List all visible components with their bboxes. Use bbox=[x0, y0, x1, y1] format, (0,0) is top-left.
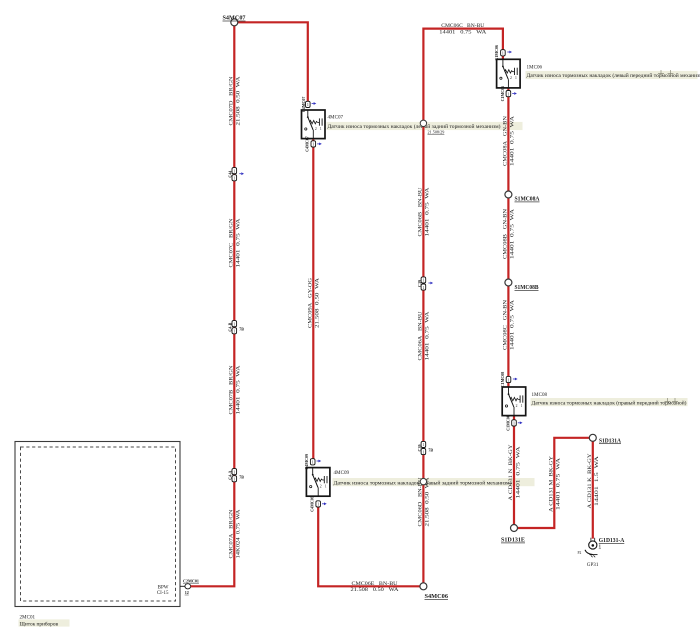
svg-text:2MC01: 2MC01 bbox=[20, 614, 36, 620]
inline connector C4-A on left wire bbox=[232, 469, 237, 475]
svg-text:C44: C44 bbox=[228, 171, 233, 178]
svg-text:C4MC07: C4MC07 bbox=[301, 97, 306, 113]
svg-text:1: 1 bbox=[502, 52, 504, 56]
svg-text:CMC06A BN-BU: CMC06A BN-BU bbox=[418, 311, 424, 360]
svg-text:CMC07B BR/GN: CMC07B BR/GN bbox=[229, 365, 235, 414]
sensor body 1MC06 bbox=[497, 59, 520, 88]
svg-text:1: 1 bbox=[513, 422, 515, 426]
svg-text:1: 1 bbox=[312, 461, 314, 465]
svg-text:4MC07: 4MC07 bbox=[328, 115, 344, 121]
node S4MC06 bbox=[420, 583, 427, 590]
svg-text:P2: P2 bbox=[578, 551, 582, 555]
svg-text:1: 1 bbox=[599, 544, 601, 549]
label 1MC06 bbox=[526, 71, 698, 79]
svg-text:4MC09: 4MC09 bbox=[334, 470, 350, 476]
svg-text:CMC06E BN-BU: CMC06E BN-BU bbox=[352, 582, 398, 587]
svg-text:1: 1 bbox=[515, 76, 517, 80]
svg-text:1: 1 bbox=[422, 450, 424, 454]
component label 4MC09 bbox=[333, 470, 535, 487]
inline connector C44 on left wire bbox=[232, 168, 237, 174]
svg-text:21.508 0.50 WA: 21.508 0.50 WA bbox=[236, 76, 242, 125]
svg-text:C39: C39 bbox=[417, 445, 422, 452]
svg-text:S4MC07: S4MC07 bbox=[223, 15, 246, 22]
svg-text:BPW: BPW bbox=[158, 585, 169, 590]
crosshair artifact marks bbox=[658, 70, 664, 77]
node S1D131A bbox=[589, 434, 596, 441]
svg-text:1: 1 bbox=[233, 330, 235, 334]
svg-text:C1MC08: C1MC08 bbox=[505, 415, 510, 431]
svg-text:C1MC06: C1MC06 bbox=[500, 86, 505, 102]
svg-text:21.508 0.50 WA: 21.508 0.50 WA bbox=[315, 278, 321, 328]
node S1MC08A bbox=[505, 191, 512, 198]
svg-text:CMC06C BN-BU: CMC06C BN-BU bbox=[441, 24, 484, 29]
svg-text:1: 1 bbox=[320, 127, 322, 131]
svg-text:CMC06B BN-BU: CMC06B BN-BU bbox=[418, 187, 424, 236]
inline connector C4-B on left wire bbox=[232, 321, 237, 327]
connector C4MC07 bottom pin bbox=[305, 136, 322, 152]
svg-text:CMC08A GN-BN: CMC08A GN-BN bbox=[503, 116, 509, 166]
svg-text:Датчик износа тормозных наклад: Датчик износа тормозных накладок (левый … bbox=[527, 72, 700, 79]
svg-text:A CD131 M BK-GY: A CD131 M BK-GY bbox=[549, 456, 555, 512]
svg-text:CI-15: CI-15 bbox=[157, 591, 169, 596]
svg-text:12: 12 bbox=[185, 590, 189, 595]
svg-text:S4MC06: S4MC06 bbox=[425, 593, 449, 600]
label 1MC08 bbox=[531, 398, 688, 406]
svg-text:CMC07C BR/GN: CMC07C BR/GN bbox=[229, 218, 235, 267]
brake wear sensor 1MC06 bbox=[497, 59, 520, 88]
wire 4MC09 to node S4MC06 bbox=[318, 502, 423, 586]
svg-text:14401 1.5 WA: 14401 1.5 WA bbox=[594, 456, 600, 506]
brake wear sensor 4MC09 bbox=[306, 468, 330, 497]
svg-text:C4MC07: C4MC07 bbox=[305, 136, 310, 152]
cluster pin C2MC01 bbox=[180, 578, 199, 594]
cluster name label 2MC01 bbox=[19, 614, 70, 627]
inline connector on CMC06 wire upper bbox=[421, 277, 426, 283]
wire crossing hop at 4MC07 label bbox=[420, 120, 426, 126]
svg-text:1: 1 bbox=[233, 478, 235, 482]
instrument cluster 2MC01 box bbox=[15, 442, 180, 607]
svg-text:1: 1 bbox=[325, 484, 327, 488]
wire node S4MC06 up to 1MC06 bbox=[423, 29, 503, 587]
component label 1MC06 bbox=[526, 65, 700, 80]
node S1D131E bbox=[511, 525, 518, 532]
svg-text:1: 1 bbox=[422, 286, 424, 290]
svg-text:1MC06: 1MC06 bbox=[527, 65, 543, 71]
inline connector on CMC06 wire lower bbox=[421, 441, 426, 447]
svg-text:1: 1 bbox=[521, 404, 523, 408]
svg-text:7B: 7B bbox=[239, 328, 244, 332]
svg-text:CMC08C GN-BN: CMC08C GN-BN bbox=[503, 300, 509, 350]
wire 1MC08 to S1D131E to S1D131A to ground bbox=[514, 416, 593, 539]
svg-text:2: 2 bbox=[315, 127, 317, 131]
svg-text:2: 2 bbox=[516, 404, 518, 408]
svg-text:14401 0.75 WA: 14401 0.75 WA bbox=[439, 31, 486, 36]
brake wear sensor 1MC08 bbox=[502, 387, 526, 416]
svg-text:C4-A: C4-A bbox=[228, 471, 233, 480]
svg-text:7B: 7B bbox=[239, 476, 244, 480]
svg-text:14401 0.75 WA: 14401 0.75 WA bbox=[236, 218, 242, 267]
svg-text:1: 1 bbox=[233, 177, 235, 181]
svg-text:CMC08B GN-BN: CMC08B GN-BN bbox=[503, 209, 509, 259]
svg-text:1MC08: 1MC08 bbox=[532, 392, 548, 398]
svg-text:1: 1 bbox=[233, 470, 235, 474]
svg-text:GP31: GP31 bbox=[587, 562, 599, 568]
wire from cluster pin up-left branch: C2MC01 to 4MC07 bbox=[191, 22, 308, 586]
svg-text:S1MC08B: S1MC08B bbox=[515, 284, 539, 291]
svg-text:2: 2 bbox=[320, 484, 322, 488]
svg-text:S1D131A: S1D131A bbox=[599, 437, 621, 444]
ground terminal G1D131-A bbox=[578, 538, 599, 568]
svg-text:1: 1 bbox=[233, 169, 235, 173]
wire crossing hop at 4MC09 label bbox=[420, 478, 426, 484]
svg-text:14K024 0.75 WA: 14K024 0.75 WA bbox=[236, 509, 242, 558]
svg-text:A CD131 K BK-GY: A CD131 K BK-GY bbox=[587, 453, 593, 508]
svg-text:14401 0.75 WA: 14401 0.75 WA bbox=[425, 187, 431, 236]
svg-text:S1MC08A: S1MC08A bbox=[515, 196, 540, 203]
svg-text:1: 1 bbox=[507, 92, 509, 96]
sensor body 4MC07 bbox=[302, 110, 326, 139]
svg-text:14401 0.75 WA: 14401 0.75 WA bbox=[556, 458, 562, 510]
svg-text:CMC07A BR/GN: CMC07A BR/GN bbox=[229, 509, 235, 558]
svg-text:C2MC01: C2MC01 bbox=[183, 578, 199, 583]
svg-text:S1D131E: S1D131E bbox=[501, 537, 525, 544]
connector C4MC07 top pin bbox=[301, 97, 316, 113]
svg-text:CMC07D BR/GN: CMC07D BR/GN bbox=[229, 76, 235, 125]
svg-text:CMC09A GY-OG: CMC09A GY-OG bbox=[308, 278, 314, 328]
connector C1MC08 top pin bbox=[500, 372, 518, 388]
svg-text:14401 0.75 WA: 14401 0.75 WA bbox=[510, 300, 516, 350]
label 4MC07 bbox=[327, 122, 523, 130]
svg-text:21.508 0.50 WA: 21.508 0.50 WA bbox=[351, 588, 399, 593]
wire 4MC07 to 4MC09 bbox=[312, 140, 314, 461]
node S1MC08B bbox=[505, 279, 512, 286]
connector C4MC09 bottom pin bbox=[310, 496, 327, 512]
svg-text:14401 0.75 WA: 14401 0.75 WA bbox=[510, 116, 516, 166]
svg-text:A CD131 N BK-GY: A CD131 N BK-GY bbox=[508, 444, 514, 500]
svg-text:21.508/29: 21.508/29 bbox=[428, 129, 445, 134]
svg-text:C4MC09: C4MC09 bbox=[310, 496, 315, 512]
svg-text:2: 2 bbox=[510, 76, 512, 80]
svg-text:1: 1 bbox=[508, 378, 510, 382]
svg-text:Датчик износа тормозных наклад: Датчик износа тормозных накладок (правый… bbox=[532, 399, 687, 406]
svg-text:1: 1 bbox=[422, 443, 424, 447]
svg-text:21.508 0.50 WA: 21.508 0.50 WA bbox=[425, 477, 431, 526]
svg-text:1: 1 bbox=[312, 143, 314, 147]
svg-text:1: 1 bbox=[233, 322, 235, 326]
sensor body 1MC08 bbox=[502, 387, 526, 416]
component label 4MC07 bbox=[327, 115, 523, 135]
svg-text:14401 0.75 WA: 14401 0.75 WA bbox=[236, 365, 242, 414]
svg-text:14401 0.75 WA: 14401 0.75 WA bbox=[510, 209, 516, 259]
svg-text:G1D131-A: G1D131-A bbox=[599, 537, 625, 544]
svg-text:Датчик износа тормозных наклад: Датчик износа тормозных накладок (левый … bbox=[328, 123, 501, 130]
svg-text:1: 1 bbox=[307, 103, 309, 107]
svg-text:Щиток приборов: Щиток приборов bbox=[20, 620, 59, 627]
svg-text:C4MC09: C4MC09 bbox=[304, 454, 309, 470]
label 4MC09 bbox=[333, 478, 535, 486]
svg-text:C1MC06: C1MC06 bbox=[494, 45, 499, 61]
sensor body 4MC09 bbox=[306, 468, 330, 497]
connector C1MC06 top pin bbox=[494, 45, 512, 61]
connector C1MC06 bottom pin bbox=[500, 86, 517, 102]
svg-text:1: 1 bbox=[422, 279, 424, 283]
connector C1MC08 bottom pin bbox=[505, 415, 522, 431]
svg-text:7B: 7B bbox=[428, 448, 433, 452]
svg-text:C4-B: C4-B bbox=[228, 322, 233, 331]
svg-text:C39: C39 bbox=[417, 280, 422, 287]
node S4MC07 bbox=[231, 19, 238, 26]
svg-text:C1MC08: C1MC08 bbox=[500, 372, 505, 388]
connector C4MC09 top pin bbox=[304, 454, 321, 470]
brake wear sensor 4MC07 bbox=[302, 110, 326, 139]
wire 1MC06 down to 1MC08 bbox=[507, 88, 509, 389]
svg-text:14401 0.75 WA: 14401 0.75 WA bbox=[425, 311, 431, 360]
svg-text:14401 0.75 WA: 14401 0.75 WA bbox=[515, 446, 521, 498]
svg-text:1: 1 bbox=[317, 503, 319, 507]
component label 1MC08 bbox=[531, 392, 688, 407]
